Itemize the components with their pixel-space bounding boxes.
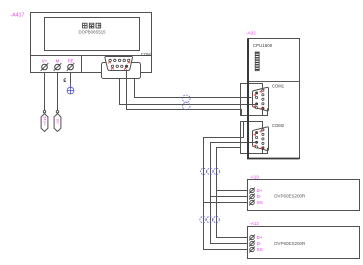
svg-text:DVP60ES200R: DVP60ES200R: [274, 241, 306, 246]
svg-text:-A417: -A417: [11, 13, 25, 19]
svg-text:SG: SG: [257, 247, 263, 252]
svg-text:D-: D-: [257, 241, 262, 246]
svg-text:24V+: 24V+: [42, 116, 47, 126]
svg-text:-A02: -A02: [246, 31, 256, 36]
svg-text:SG: SG: [257, 200, 263, 205]
svg-text:0V: 0V: [55, 119, 60, 124]
svg-text:M: M: [56, 58, 60, 63]
svg-text:COM1: COM1: [272, 84, 285, 89]
svg-text:D-: D-: [257, 194, 262, 199]
svg-text:COM2: COM2: [272, 123, 285, 128]
svg-text:-A12: -A12: [250, 221, 260, 226]
svg-text:PE: PE: [68, 58, 74, 63]
svg-text:CPU1500: CPU1500: [253, 43, 273, 48]
svg-text:DVP60ES200R: DVP60ES200R: [274, 194, 306, 199]
svg-text:D+: D+: [257, 188, 263, 193]
svg-text:-A19: -A19: [250, 175, 260, 180]
svg-text:DOPB08S515: DOPB08S515: [79, 29, 107, 34]
svg-text:COM: COM: [141, 52, 151, 57]
svg-text:V+: V+: [42, 58, 48, 63]
svg-text:D+: D+: [257, 235, 263, 240]
